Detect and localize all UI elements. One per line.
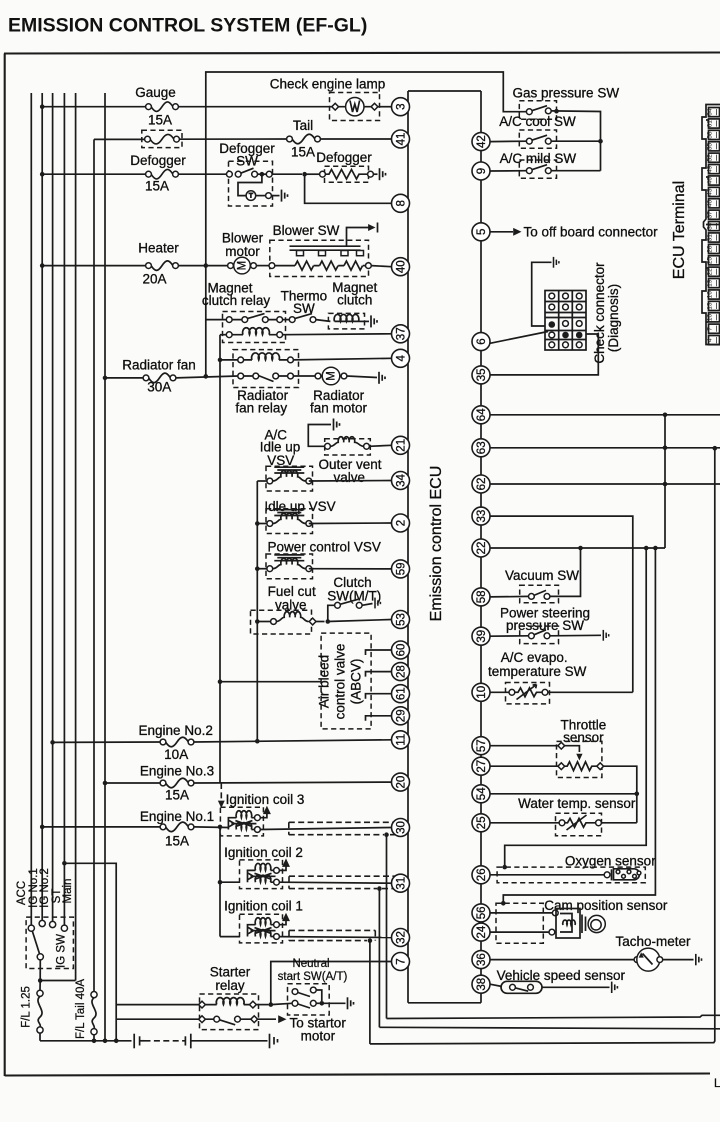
- wire neutral sw to ground: [322, 1002, 346, 1004]
- svg-text:40: 40: [707, 200, 714, 208]
- wire feed to ABCV: [220, 681, 321, 683]
- node radiator row bus junction: [204, 374, 209, 379]
- wire tail bus to breaker: [94, 138, 148, 140]
- svg-text:4: 4: [395, 355, 407, 362]
- node fuel cut tap: [255, 619, 260, 624]
- svg-text:Emission control ECU: Emission control ECU: [428, 466, 445, 622]
- wire pin36 to tachometer: [490, 959, 634, 961]
- svg-text:28: 28: [707, 245, 714, 253]
- pin 59 ECU left: [392, 560, 410, 578]
- svg-text:Defogger: Defogger: [316, 150, 372, 165]
- box air bleed control valve: [321, 633, 371, 729]
- svg-text:A/C evapo.: A/C evapo.: [501, 650, 568, 665]
- svg-text:VSV: VSV: [267, 453, 294, 468]
- pin 60 ECU left: [392, 641, 410, 659]
- pin 33 ECU right: [472, 507, 490, 525]
- wire gas SW to AC common: [551, 111, 600, 171]
- svg-text:42: 42: [476, 135, 488, 148]
- battery cell 1: [133, 1034, 135, 1049]
- svg-text:Ignition coil 1: Ignition coil 1: [224, 899, 303, 914]
- sensor oxygen body: [604, 869, 641, 881]
- svg-text:Tail: Tail: [293, 118, 313, 133]
- wire ABCV to pin 28: [366, 672, 392, 677]
- svg-text:Gas pressure SW: Gas pressure SW: [513, 86, 620, 101]
- wire A/C idle VSV to pin 34: [309, 480, 392, 483]
- wire heater fuse to blower motor: [178, 265, 227, 267]
- switch vacuum SW: [529, 590, 550, 599]
- wire pin56 to cam sensor: [490, 912, 553, 914]
- node engine3 tap: [103, 781, 108, 786]
- wire outer vent ground branch: [308, 425, 331, 447]
- svg-text:25: 25: [476, 816, 488, 829]
- svg-text:40: 40: [395, 260, 407, 273]
- box A/C idle up VSV: [266, 466, 313, 491]
- pin 3 ECU left: [392, 98, 410, 116]
- coil radiator fan relay: [252, 353, 280, 360]
- box throttle sensor: [557, 741, 602, 777]
- ground defogger indicator: [282, 190, 288, 202]
- svg-text:15A: 15A: [148, 113, 172, 128]
- wire fuel cut to pin 53: [328, 620, 392, 622]
- box outer vent valve: [325, 439, 371, 455]
- wire defogger junction to pin 8: [305, 174, 392, 203]
- battery end plate: [269, 1034, 271, 1049]
- wire shield exit 3: [370, 448, 715, 1044]
- wire indicator to terminal: [256, 195, 266, 197]
- svg-text:10: 10: [476, 686, 488, 699]
- svg-text:15A: 15A: [165, 788, 189, 803]
- node ignition feed junction: [218, 825, 223, 830]
- coil starter relay: [216, 998, 244, 1005]
- terminal ACC: [28, 925, 34, 931]
- svg-text:15A: 15A: [165, 834, 189, 849]
- pin 57 ECU right: [472, 737, 490, 755]
- switch gas pressure SW: [526, 106, 551, 115]
- wire power VSV to pin 59: [309, 568, 392, 570]
- battery cell 2: [184, 1036, 186, 1045]
- node VSV feed junction: [255, 739, 260, 744]
- node oxygen shield tap: [644, 546, 649, 551]
- box neutral start SW: [288, 984, 330, 1015]
- node coil2 tap: [218, 880, 223, 885]
- pin 8 ECU left: [392, 194, 410, 212]
- wire pin22 common: [490, 547, 665, 549]
- svg-text:Main: Main: [62, 879, 74, 904]
- svg-text:58: 58: [707, 131, 714, 139]
- pin 34 ECU left: [392, 472, 410, 490]
- wire element to ground: [373, 173, 377, 175]
- pin 35 ECU right: [472, 366, 490, 384]
- svg-text:control valve: control valve: [333, 644, 348, 720]
- svg-text:start SW(A/T): start SW(A/T): [278, 971, 348, 983]
- svg-text:55: 55: [707, 143, 714, 151]
- svg-text:Ignition coil 2: Ignition coil 2: [224, 845, 303, 860]
- svg-text:EMISSION CONTROL SYSTEM (EF-GL: EMISSION CONTROL SYSTEM (EF-GL): [8, 15, 367, 37]
- wire outer vent to pin 21: [369, 445, 391, 446]
- svg-text:61: 61: [395, 687, 407, 700]
- node radiator fan tap: [103, 376, 108, 381]
- svg-text:29: 29: [395, 709, 407, 722]
- svg-text:39: 39: [476, 630, 488, 643]
- pin 6 ECU right: [472, 333, 490, 351]
- svg-text:sensor: sensor: [563, 730, 604, 745]
- svg-text:(Diagnosis): (Diagnosis): [606, 284, 621, 352]
- pin 2 ECU left: [392, 514, 410, 532]
- lamp check engine: [332, 98, 378, 116]
- wire pin58 to vacuum SW: [490, 595, 529, 598]
- svg-text:Engine No.3: Engine No.3: [140, 764, 214, 779]
- svg-text:16: 16: [707, 291, 714, 299]
- wire coil3 shield drop: [386, 835, 388, 1019]
- svg-text:temperature SW: temperature SW: [488, 664, 587, 679]
- wire pin25 to water temp: [490, 822, 559, 824]
- pin 20 ECU left: [392, 773, 410, 791]
- svg-text:24: 24: [476, 925, 488, 938]
- svg-text:Oxygen sensor: Oxygen sensor: [565, 854, 656, 869]
- pin 53 ECU left: [392, 611, 410, 629]
- node power vsv tap: [255, 566, 260, 571]
- ground defogger element: [380, 168, 386, 180]
- lamp defogger indicator: [246, 191, 256, 201]
- wire relay switch out: [258, 1018, 276, 1020]
- pin 28 ECU left: [392, 663, 410, 681]
- wire oxygen shield to common: [505, 548, 647, 867]
- fuse Tail 15A: [287, 134, 321, 144]
- box A/C cool SW: [519, 130, 556, 148]
- svg-text:Tacho-meter: Tacho-meter: [615, 934, 691, 949]
- terminal IG No.1: [39, 920, 45, 926]
- box idle up VSV: [266, 509, 313, 534]
- svg-text:64: 64: [707, 108, 714, 116]
- wire pin62 to right edge: [490, 483, 720, 485]
- wire indicator to ground: [271, 195, 279, 197]
- svg-text:56: 56: [476, 907, 488, 920]
- svg-text:34: 34: [707, 222, 714, 230]
- svg-text:10: 10: [707, 314, 714, 322]
- arrow blower sw ground: [368, 224, 375, 231]
- wire relay to thermo sw: [283, 319, 290, 321]
- potentiometer throttle sensor: [558, 742, 604, 770]
- node engine1 tap: [40, 825, 45, 830]
- box blower switch: [270, 240, 369, 276]
- ground outer vent valve: [334, 419, 340, 431]
- wire gauge fuse feed: [42, 106, 148, 108]
- ground neutral start SW: [348, 997, 354, 1009]
- pin 61 ECU left: [392, 685, 410, 703]
- svg-text:31: 31: [707, 234, 714, 242]
- node radiator relay coil tap: [218, 358, 223, 363]
- svg-text:53: 53: [395, 613, 407, 626]
- fuse Radiator fan 30A: [143, 373, 176, 383]
- wire shield exit 2: [379, 1027, 720, 1029]
- wire pin63 to right edge: [490, 447, 720, 449]
- svg-text:To off board connector: To off board connector: [524, 225, 659, 240]
- fuse Engine No.2 10A: [160, 737, 194, 747]
- pin 9 ECU right: [472, 162, 490, 180]
- wire coil2 secondary to pin 31: [279, 882, 391, 883]
- node AC common: [598, 139, 603, 144]
- pin 4 ECU left: [392, 349, 410, 367]
- coil magnet clutch relay: [243, 328, 270, 335]
- relay radiator fan coil: [220, 357, 293, 363]
- box magnet clutch relay: [223, 312, 286, 343]
- pin 30 ECU left: [392, 819, 410, 837]
- ground check connector: [554, 257, 559, 268]
- pin 21 ECU left: [392, 436, 410, 454]
- wire right common vertical: [664, 415, 666, 548]
- ECU box outline: [408, 90, 481, 92]
- shield coil1 dashed: [289, 930, 375, 940]
- pin 29 ECU left: [392, 707, 410, 725]
- wire bus to relay switch: [206, 319, 227, 321]
- svg-text:30: 30: [395, 821, 407, 834]
- svg-text:36: 36: [476, 953, 488, 966]
- svg-text:Check engine lamp: Check engine lamp: [270, 77, 386, 92]
- bus ignition coil feed lower: [219, 827, 221, 937]
- svg-text:54: 54: [476, 787, 488, 800]
- box power control VSV: [266, 554, 313, 579]
- relay starter coil: [199, 1001, 257, 1008]
- wire motor to blower switch: [256, 265, 269, 267]
- svg-text:63: 63: [476, 441, 488, 454]
- box defogger switch: [229, 161, 273, 206]
- wire evapo to vertical: [548, 691, 633, 693]
- wire coil1 secondary to pin 32: [279, 936, 391, 939]
- svg-text:25: 25: [707, 257, 714, 265]
- node 64 junction: [663, 413, 668, 418]
- svg-text:21: 21: [395, 439, 407, 452]
- wire ABCV to pin 29: [366, 716, 392, 721]
- svg-text:15A: 15A: [291, 145, 315, 160]
- svg-text:28: 28: [395, 665, 407, 678]
- wire check connector ground: [532, 262, 552, 326]
- wire IG SW output: [39, 960, 41, 981]
- node IG SW output junction: [38, 978, 43, 983]
- box tail circuit breaker: [142, 130, 182, 147]
- svg-text:37: 37: [707, 211, 714, 219]
- node coil3 shield tap: [384, 832, 389, 837]
- svg-text:SW(M/T): SW(M/T): [327, 589, 381, 604]
- wire coil3 secondary to pin 30: [260, 828, 391, 830]
- transformer ignition coil 3: [220, 806, 270, 836]
- node heater tap: [40, 263, 45, 268]
- wire feed to A/C idle VSV: [257, 480, 266, 482]
- wire ST feed to relay coil: [116, 1004, 199, 1006]
- svg-text:A/C mild SW: A/C mild SW: [500, 151, 577, 166]
- wire pin42 to AC cool SW: [490, 140, 526, 142]
- pin 42 ECU right: [472, 133, 490, 151]
- wire AC cool to common: [551, 140, 600, 142]
- pin 5 ECU right: [472, 223, 490, 241]
- shield cam dashed box: [496, 903, 543, 943]
- wire clutch coil base: [335, 320, 359, 322]
- switch neutral start bottom: [271, 1000, 320, 1008]
- wire dashed branch to ignition coil 3: [220, 783, 222, 802]
- box fuel cut valve: [251, 610, 312, 634]
- node oxygen shield: [502, 865, 507, 870]
- svg-text:60: 60: [395, 644, 407, 657]
- svg-text:clutch relay: clutch relay: [202, 293, 271, 308]
- node F/L tail bottom: [92, 1039, 97, 1044]
- node engine2 tap: [50, 740, 55, 745]
- wire throttle to sensor common: [604, 766, 637, 823]
- wire radiator fuse to relay: [176, 376, 238, 378]
- svg-text:22: 22: [707, 268, 714, 276]
- svg-text:IG No.1: IG No.1: [28, 868, 40, 908]
- pin 39 ECU right: [472, 627, 490, 645]
- sensor vehicle speed reed: [501, 981, 542, 993]
- pin 38 ECU right: [472, 975, 490, 993]
- node coil1 shield tap: [368, 938, 373, 943]
- svg-text:41: 41: [395, 133, 407, 146]
- ground vehicle speed sensor: [612, 982, 618, 993]
- fuse Heater 20A: [146, 261, 179, 271]
- wire defogger fuse to switch: [178, 173, 226, 175]
- wire battery to end plate: [191, 1040, 268, 1042]
- fuse Engine No.3 15A: [160, 778, 194, 788]
- svg-text:7: 7: [395, 958, 407, 964]
- svg-text:F/L Tail 40A: F/L Tail 40A: [75, 979, 87, 1039]
- wire defogger fuse feed: [42, 173, 148, 175]
- svg-text:Power control VSV: Power control VSV: [268, 540, 381, 555]
- node gas sw out: [554, 109, 559, 114]
- node 62 junction: [663, 482, 668, 487]
- box AC evapo temperature SW: [506, 683, 550, 704]
- wire coil2 shield drop: [378, 889, 380, 1028]
- pin 7 ECU left: [392, 953, 410, 971]
- pin 40 ECU left: [392, 258, 410, 276]
- node clutch sw junction: [326, 619, 331, 624]
- svg-text:11: 11: [395, 734, 407, 746]
- bus relay-ignition feed vertical: [219, 335, 221, 783]
- node ST branch junction: [62, 861, 67, 866]
- wire thermo to clutch coil: [316, 320, 331, 322]
- wire lamp to pin 3: [378, 106, 392, 108]
- wire coil1 shield drop: [369, 941, 371, 1044]
- pin 41 ECU left: [392, 130, 410, 148]
- svg-text:Defogger: Defogger: [130, 153, 186, 168]
- arrow to starter motor: [278, 1015, 286, 1023]
- ground radiator fan motor: [379, 372, 385, 384]
- svg-text:Vacuum SW: Vacuum SW: [505, 568, 579, 583]
- svg-text:7: 7: [707, 327, 714, 331]
- box water temp sensor: [556, 813, 602, 836]
- svg-text:43: 43: [707, 188, 714, 196]
- node sensor ground junction: [635, 792, 640, 797]
- switch blower SW selector: [290, 228, 373, 256]
- node battery bus bottom: [103, 1039, 108, 1044]
- node defogger tap: [40, 172, 45, 177]
- wire relay coil row: [220, 334, 229, 336]
- pin 36 ECU right: [472, 951, 490, 969]
- node cam shield tap: [653, 546, 658, 551]
- bus Main vertical: [75, 93, 77, 981]
- wire pin26 to oxygen sensor: [490, 874, 605, 876]
- svg-text:fan motor: fan motor: [310, 401, 368, 416]
- wire speed sensor to ground: [542, 986, 610, 988]
- wire pin10 to evapo SW: [490, 691, 509, 693]
- pin 56 ECU right: [472, 904, 490, 922]
- svg-text:26: 26: [476, 868, 488, 881]
- svg-text:L: L: [714, 1078, 720, 1090]
- svg-text:Water temp. sensor: Water temp. sensor: [518, 796, 636, 811]
- box ignition switch: [26, 917, 73, 968]
- svg-text:Gauge: Gauge: [135, 85, 176, 100]
- wire relay coil to pin 37: [283, 333, 392, 336]
- wire pin38 to speed sensor: [490, 984, 502, 986]
- svg-text:5: 5: [476, 229, 488, 235]
- connector ECU terminal: [702, 105, 720, 345]
- shield coil2 dashed: [289, 876, 396, 888]
- fuse Engine No.1 15A: [160, 822, 194, 832]
- bus Tail(F/L) vertical: [93, 139, 95, 991]
- box gas pressure SW: [519, 101, 556, 120]
- svg-text:15A: 15A: [145, 179, 169, 194]
- svg-text:57: 57: [476, 739, 488, 752]
- svg-text:IG No.2: IG No.2: [39, 868, 51, 908]
- pin 10 ECU right: [472, 683, 490, 701]
- svg-text:(ABCV): (ABCV): [349, 659, 364, 705]
- wire engine3 to pin 20: [194, 781, 392, 784]
- svg-text:fan relay: fan relay: [235, 401, 287, 416]
- svg-text:Ignition coil 3: Ignition coil 3: [226, 792, 305, 807]
- svg-text:8: 8: [395, 200, 407, 206]
- node ABCV tap: [218, 679, 223, 684]
- pin 37 ECU left: [392, 325, 410, 343]
- sensor cam position body: [549, 909, 605, 939]
- svg-text:clutch: clutch: [337, 293, 372, 308]
- pin 22 ECU right: [472, 539, 490, 557]
- wire breaker to tail fuse: [179, 138, 289, 140]
- ground tachometer: [696, 954, 702, 965]
- breaker tail circuit: [145, 134, 180, 144]
- relay magnet clutch switch contacts: [226, 314, 282, 323]
- wire engine2 to pin 11: [194, 740, 392, 742]
- switch A/C cool SW: [526, 135, 551, 144]
- node neutral sw out: [320, 1001, 325, 1006]
- wire pin39 to ps SW: [490, 635, 529, 637]
- relay radiator fan switch: [238, 373, 294, 381]
- svg-text:ECU Terminal: ECU Terminal: [671, 181, 688, 279]
- switch neutral start top: [292, 987, 322, 1001]
- node cam shield: [501, 901, 506, 906]
- bus VSV feed vertical: [256, 481, 258, 741]
- wire pin 6 to check connector: [490, 332, 548, 344]
- wire pin64 to right edge: [490, 414, 720, 416]
- wire blower to pin 40: [371, 266, 391, 267]
- wire pin57 to throttle: [490, 745, 558, 747]
- bus ACC vertical: [30, 93, 32, 925]
- svg-text:31: 31: [395, 877, 407, 890]
- switch clutch SW(M/T): [328, 599, 373, 621]
- svg-text:64: 64: [476, 408, 488, 421]
- box defogger element: [325, 166, 369, 182]
- wire AC mild to common: [551, 170, 600, 172]
- pin 26 ECU right: [472, 866, 490, 884]
- wire tacho to ground: [663, 959, 694, 961]
- svg-text:3: 3: [395, 103, 407, 109]
- coil magnet clutch: [334, 314, 359, 321]
- fuse Defogger 15A: [146, 169, 179, 179]
- svg-text:IG SW: IG SW: [56, 934, 68, 968]
- pin 62 ECU right: [472, 475, 490, 493]
- terminal ST: [61, 925, 67, 931]
- wire heater fuse feed: [42, 265, 148, 267]
- svg-text:62: 62: [476, 478, 488, 491]
- node 63 junction a: [663, 446, 668, 451]
- wire pin33 to evapo vertical: [490, 516, 633, 692]
- motor radiator fan M: [315, 367, 347, 385]
